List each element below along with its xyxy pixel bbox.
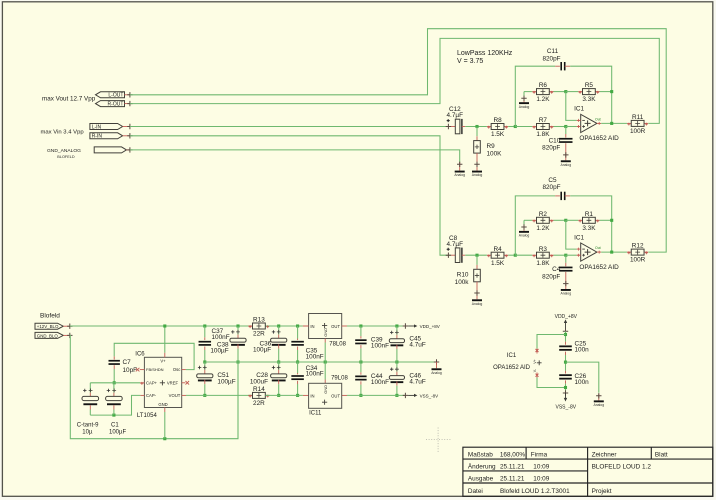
svg-text:IC11: IC11 [309, 410, 322, 416]
svg-text:1.2K: 1.2K [536, 225, 550, 232]
svg-text:GND_ANALOG: GND_ANALOG [47, 148, 81, 154]
wire feedback node to op-amp [566, 220, 577, 249]
svg-text:Blatt: Blatt [655, 452, 668, 459]
svg-text:+12V_BLO: +12V_BLO [37, 324, 59, 329]
wire VDD to C25 [565, 331, 567, 341]
wire node to R10 [476, 255, 478, 265]
ground [476, 162, 478, 171]
ground [598, 394, 600, 401]
svg-text:R7: R7 [539, 117, 548, 124]
svg-text:R3: R3 [539, 246, 548, 253]
svg-text:CAP-: CAP- [146, 393, 157, 398]
svg-text:V+: V+ [533, 359, 537, 364]
wire L-OUT loop to R12 output [130, 29, 666, 252]
svg-text:Analog: Analog [561, 292, 572, 296]
svg-text:LowPass 120KHz: LowPass 120KHz [457, 50, 513, 57]
svg-text:100R: 100R [630, 128, 646, 135]
svg-text:max Vin 3.4 Vpp: max Vin 3.4 Vpp [41, 130, 85, 136]
svg-text:Firma: Firma [531, 452, 548, 459]
supply VDD_+8V [403, 323, 408, 328]
svg-text:IN: IN [310, 324, 314, 329]
wire C7 to CAP+ line [113, 369, 115, 383]
svg-text:R13: R13 [253, 317, 265, 324]
capacitor C28 [271, 374, 287, 378]
sheet origin marker [426, 428, 451, 453]
wire C44 column [360, 362, 362, 372]
wire C45 column [396, 326, 398, 335]
wire op-amp output [601, 122, 626, 124]
IC IC11 79L08 [309, 383, 342, 408]
svg-text:1.8K: 1.8K [536, 260, 550, 267]
wire C11 to output node [570, 66, 612, 123]
svg-text:OPA1652 AID: OPA1652 AID [579, 264, 619, 271]
svg-text:10:09: 10:09 [533, 476, 549, 483]
svg-text:10µ: 10µ [82, 429, 93, 435]
ground [523, 96, 525, 102]
connector flag L-IN [90, 124, 123, 130]
svg-text:100R: 100R [630, 257, 646, 264]
wire node to op-amp +input [566, 254, 577, 256]
svg-text:100k: 100k [455, 279, 470, 286]
connector flag GND_BLO [35, 332, 63, 338]
svg-text:OPA1652 AID: OPA1652 AID [493, 365, 531, 371]
svg-text:168,00%: 168,00% [500, 452, 526, 459]
resistor R4 [486, 254, 488, 256]
svg-text:78L08: 78L08 [329, 341, 346, 347]
svg-text:100uF: 100uF [250, 378, 268, 385]
wire C38 column [237, 326, 239, 335]
capacitor C26 [559, 374, 572, 376]
resistor R3 [515, 254, 532, 256]
capacitor C45 [389, 339, 404, 343]
capacitor C12 [451, 126, 456, 128]
svg-text:1.2K: 1.2K [536, 96, 550, 103]
svg-text:100µF: 100µF [253, 346, 271, 353]
resistor R5 [566, 91, 579, 93]
wire IC11 GND from mid rail [324, 362, 326, 380]
svg-text:R-IN: R-IN [92, 134, 103, 140]
wire to V+ pin of IC1 power [537, 335, 566, 349]
wire GND_ANALOG to ground [130, 150, 460, 162]
svg-text:VREF: VREF [167, 380, 179, 385]
svg-text:GND: GND [158, 402, 167, 407]
svg-text:IC1: IC1 [507, 353, 517, 359]
svg-text:VDD_+8V: VDD_+8V [420, 324, 440, 329]
svg-text:100nF: 100nF [371, 343, 389, 350]
svg-text:IC1: IC1 [574, 234, 584, 241]
capacitor C51 [197, 374, 213, 378]
svg-text:820pF: 820pF [542, 273, 560, 280]
capacitor C7 [109, 360, 120, 362]
svg-text:R1: R1 [585, 211, 594, 218]
resistor R11 [625, 122, 628, 124]
svg-text:C4: C4 [552, 266, 561, 273]
wire node to R9 [476, 127, 478, 137]
svg-text:VOUT: VOUT [169, 393, 181, 398]
svg-text:22R: 22R [253, 331, 265, 338]
resistor R14 [248, 394, 252, 396]
svg-text:VSS_-8V: VSS_-8V [420, 393, 439, 398]
connector flag L-OUT [96, 92, 125, 98]
wire R-OUT loop to R11 output [130, 38, 659, 123]
svg-text:R2: R2 [539, 211, 548, 218]
supply VSS_-8V [403, 393, 408, 398]
svg-text:V+: V+ [160, 359, 166, 364]
svg-text:10:09: 10:09 [533, 464, 549, 471]
wire C5 to output node [570, 196, 612, 252]
svg-text:100nF: 100nF [212, 334, 230, 341]
svg-text:100nF: 100nF [306, 371, 324, 378]
wire GND_BLO down to bottom rail [70, 335, 238, 438]
resistor R2 [531, 219, 534, 221]
ground [565, 153, 567, 161]
svg-text:100µF: 100µF [217, 378, 235, 385]
svg-text:22R: 22R [253, 400, 265, 407]
svg-text:GND: GND [323, 385, 328, 394]
capacitor C4 [559, 267, 572, 269]
capacitor C37 [199, 341, 212, 343]
svg-text:Datei: Datei [468, 488, 483, 495]
svg-text:79L08: 79L08 [331, 376, 348, 382]
resistor R8 [486, 126, 488, 128]
svg-text:BLOFELD: BLOFELD [57, 155, 75, 159]
wire GND mid rail [205, 361, 437, 363]
svg-text:4.7µF: 4.7µF [447, 241, 464, 248]
svg-text:1.5K: 1.5K [491, 260, 505, 267]
svg-text:C-tant-9: C-tant-9 [77, 422, 99, 428]
pin FB/SHDN n.c. [140, 369, 145, 371]
wire VSS rail [342, 394, 347, 396]
svg-text:V = 3.75: V = 3.75 [457, 58, 483, 65]
connector flag +12V_BLO [35, 323, 63, 329]
wire CAP+ line [90, 382, 140, 384]
wire C37 column [204, 326, 206, 337]
connector flag R-IN [90, 133, 123, 139]
svg-text:C11: C11 [547, 48, 559, 55]
svg-text:25.11.21: 25.11.21 [500, 464, 525, 471]
svg-text:R8: R8 [493, 117, 502, 124]
svg-text:Analog: Analog [472, 302, 483, 306]
svg-text:R4: R4 [493, 246, 502, 253]
wire C35 column [297, 326, 299, 339]
ground [459, 161, 461, 163]
IC IC6 LT1054 [144, 357, 181, 407]
svg-text:L-IN: L-IN [92, 124, 102, 130]
svg-text:R5: R5 [585, 82, 594, 89]
wire C46 column [396, 362, 398, 372]
svg-text:3.3K: 3.3K [582, 96, 596, 103]
svg-text:OUT: OUT [331, 394, 340, 399]
svg-text:Ausgabe: Ausgabe [468, 476, 494, 483]
resistor R1 [566, 219, 579, 221]
svg-text:VDD_+8V: VDD_+8V [555, 314, 578, 320]
svg-text:10pF: 10pF [123, 367, 138, 374]
op-amp IC1 [581, 114, 597, 132]
resistor R7 [515, 126, 532, 128]
capacitor C8 [451, 254, 456, 256]
capacitor C44 [355, 376, 366, 378]
svg-text:Maßstab: Maßstab [468, 452, 493, 459]
wire L-IN to C12 [130, 126, 451, 128]
svg-text:FB/SHDN: FB/SHDN [146, 367, 164, 372]
capacitor C38 [230, 338, 246, 342]
wire C12 to node [465, 126, 486, 128]
svg-text:C1: C1 [111, 422, 119, 428]
svg-text:CAP+: CAP+ [146, 380, 158, 385]
svg-text:C10: C10 [549, 137, 561, 144]
capacitor C46 [389, 376, 404, 380]
wire V+ pin [164, 326, 166, 353]
svg-text:Blofeld: Blofeld [40, 313, 60, 320]
resistor R10 [474, 269, 481, 282]
wire ground to R2 [524, 219, 532, 221]
capacitor C1 [113, 383, 115, 393]
svg-text:4.7uF: 4.7uF [409, 378, 425, 385]
svg-text:R10: R10 [457, 272, 469, 279]
svg-text:OUT: OUT [331, 324, 340, 329]
svg-text:Analog: Analog [454, 173, 465, 177]
svg-text:820pF: 820pF [542, 184, 560, 191]
capacitor C35 [291, 341, 304, 343]
wire C28 column [278, 362, 280, 370]
capacitor C34 [291, 375, 304, 377]
svg-text:VSS_-8V: VSS_-8V [556, 404, 577, 410]
svg-text:100K: 100K [487, 150, 503, 157]
capacitor C10 [559, 138, 572, 140]
wire VDD rail [342, 325, 347, 327]
wire R-IN to C8 [130, 136, 451, 255]
svg-text:max Vout 12.7 Vpp: max Vout 12.7 Vpp [42, 95, 96, 102]
resistor R13 [248, 325, 252, 327]
svg-text:Osc: Osc [173, 367, 180, 372]
connector flag [94, 147, 126, 153]
svg-text:Analog: Analog [472, 173, 483, 177]
wire C34 column [297, 362, 299, 373]
wire C51 column [204, 362, 206, 370]
svg-text:R9: R9 [487, 143, 496, 150]
svg-text:1.5K: 1.5K [491, 131, 505, 138]
resistor R12 [625, 251, 628, 253]
wire C36 column [278, 326, 280, 335]
svg-text:GND_BLO: GND_BLO [37, 333, 59, 338]
svg-text:R11: R11 [632, 114, 644, 121]
wire CAP- line [140, 394, 144, 396]
wire C39 column [360, 326, 362, 336]
svg-text:Zeichner: Zeichner [592, 452, 618, 459]
connector flag R-OUT [96, 101, 125, 107]
svg-text:Analog: Analog [519, 105, 530, 109]
wire IC10 GND to mid rail [324, 339, 326, 343]
resistor R6 [531, 91, 534, 93]
wire rail to IC10 [303, 325, 309, 327]
svg-text:3.3K: 3.3K [582, 225, 596, 232]
wire node A to C5 [515, 196, 555, 255]
svg-text:Out: Out [595, 246, 601, 250]
title block frame [463, 447, 713, 496]
svg-text:R14: R14 [253, 386, 265, 393]
wire VOUT rail [182, 394, 186, 396]
wire node A to C11 [515, 66, 555, 126]
svg-text:IN: IN [310, 394, 314, 399]
svg-text:100nF: 100nF [306, 353, 324, 360]
ground [523, 225, 525, 231]
svg-text:R6: R6 [539, 82, 548, 89]
wire ground to R6 [524, 91, 532, 93]
svg-text:100µF: 100µF [210, 347, 228, 354]
wire Osc to C7 [182, 369, 186, 371]
svg-text:C7: C7 [123, 359, 132, 366]
svg-text:GND: GND [323, 328, 328, 337]
svg-text:OPA1652 AID: OPA1652 AID [579, 135, 619, 142]
svg-text:Analog: Analog [594, 403, 605, 407]
svg-text:C5: C5 [548, 177, 557, 184]
svg-text:4.7µF: 4.7µF [447, 112, 464, 119]
wire V- pin to VSS [537, 378, 566, 388]
wire op-amp output [601, 251, 626, 253]
wire feedback node to op-amp [566, 92, 577, 121]
capacitor C36 [271, 338, 287, 342]
wire C8 to node [465, 254, 486, 256]
svg-text:LT1054: LT1054 [137, 413, 158, 419]
wire mid node to ground [566, 362, 599, 393]
wire node to op-amp +input [566, 126, 577, 128]
capacitor C25 [559, 345, 572, 347]
svg-text:4.7uF: 4.7uF [409, 342, 425, 349]
svg-text:BLOFELD LOUD 1.2: BLOFELD LOUD 1.2 [592, 464, 652, 471]
svg-text:25.11.21: 25.11.21 [500, 476, 525, 483]
svg-text:100µF: 100µF [109, 429, 126, 435]
svg-text:100n: 100n [575, 379, 590, 386]
ground [476, 291, 478, 300]
svg-text:100nF: 100nF [371, 379, 389, 386]
svg-text:R-OUT: R-OUT [108, 102, 124, 108]
svg-text:IC6: IC6 [135, 351, 145, 357]
svg-text:Änderung: Änderung [468, 463, 496, 471]
wire GND pin [164, 408, 166, 413]
svg-text:Blofeld LOUD 1.2.T3001: Blofeld LOUD 1.2.T3001 [500, 488, 570, 495]
IC IC10 78L08 [309, 314, 342, 339]
svg-text:Out: Out [595, 117, 601, 121]
capacitor C5 [555, 195, 560, 197]
svg-text:Analog: Analog [431, 371, 442, 375]
op-amp IC1 [581, 243, 597, 261]
pin VREF n.c. [182, 382, 186, 384]
resistor R9 [474, 141, 481, 154]
ground [565, 281, 567, 289]
svg-text:Analog: Analog [519, 234, 530, 238]
supply VSS arrow IC1 [565, 393, 567, 399]
wire +12V rail [70, 325, 253, 327]
svg-text:100n: 100n [575, 347, 590, 354]
capacitor C11 [555, 65, 560, 67]
wire C25 to C26 [565, 355, 567, 371]
svg-text:Projekt: Projekt [592, 488, 612, 495]
svg-text:R12: R12 [632, 243, 644, 250]
capacitor C39 [355, 339, 366, 341]
svg-text:L-OUT: L-OUT [108, 93, 123, 99]
svg-text:Analog: Analog [561, 163, 572, 167]
wire C26 to VSS arrow [565, 384, 567, 393]
svg-text:IC1: IC1 [574, 106, 584, 113]
capacitor C-tant-9 [89, 383, 91, 393]
svg-text:820pF: 820pF [542, 55, 560, 62]
svg-text:820pF: 820pF [542, 145, 560, 152]
wire GND column down to bottom rail [237, 362, 239, 439]
